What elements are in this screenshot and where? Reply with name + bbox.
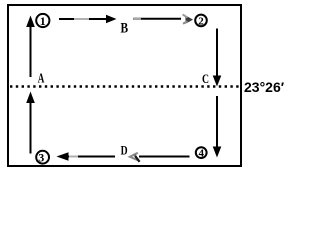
box border — [8, 5, 241, 166]
svg-text:C: C — [202, 72, 209, 86]
svg-text:3: 3 — [38, 150, 44, 164]
svg-text:B: B — [121, 21, 129, 37]
node 3 (circled) — [36, 150, 49, 164]
arrow left (bottom-left, into node 3) — [57, 152, 116, 161]
arrow down (right, above tropic, C) — [213, 29, 222, 87]
node 2 (circled) — [195, 15, 207, 28]
svg-text:1: 1 — [40, 14, 46, 28]
svg-text:23°26′: 23°26′ — [244, 79, 285, 95]
arrow down (right, below tropic) — [213, 96, 222, 158]
svg-text:D: D — [121, 144, 128, 158]
arrow right (top-left, B) — [59, 15, 117, 23]
dotted line (tropic) — [10, 85, 240, 87]
arrow left (bottom-right, grey head, D) — [130, 153, 190, 162]
arrow up (left, above tropic) — [26, 16, 35, 78]
wire fade marks — [74, 18, 89, 20]
svg-text:2: 2 — [198, 15, 204, 27]
arrow up (left, below tropic) — [26, 92, 35, 154]
node 4 (circled) — [196, 147, 207, 159]
node 1 (circled) — [36, 14, 49, 28]
svg-text:4: 4 — [198, 147, 204, 159]
arrow right (top-right, grey head) — [134, 14, 193, 23]
svg-text:A: A — [38, 72, 45, 87]
